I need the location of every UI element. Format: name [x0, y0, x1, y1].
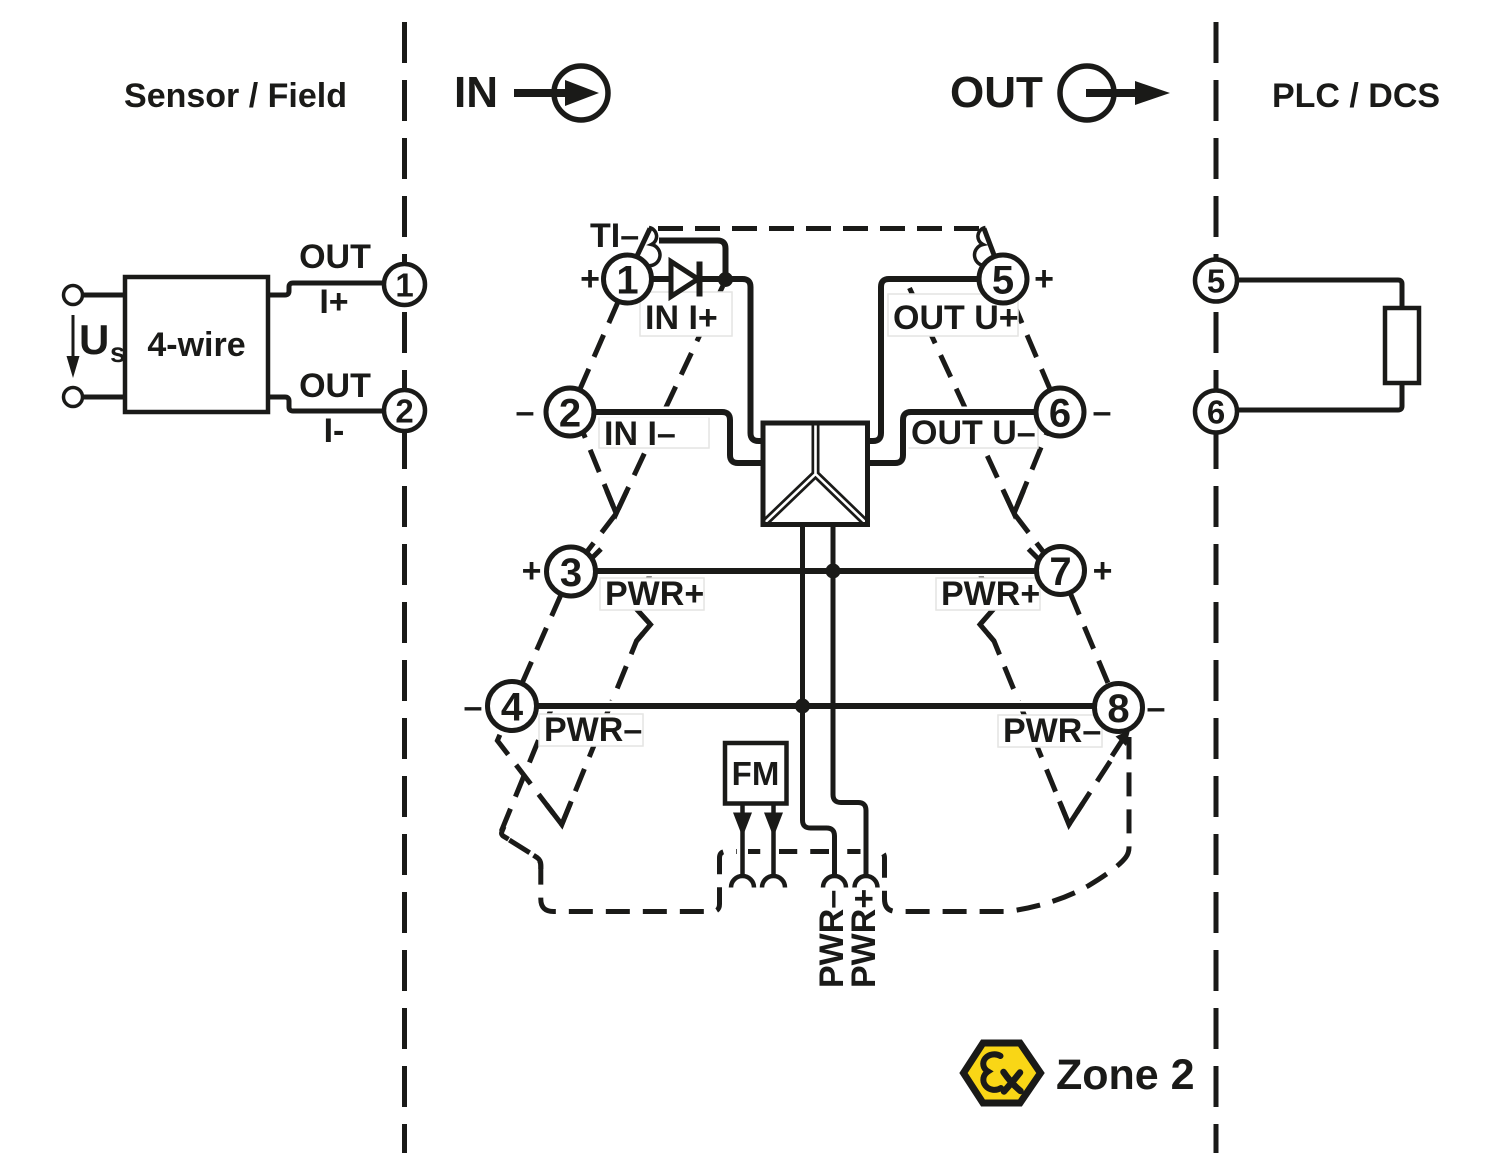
- svg-text:FM: FM: [732, 755, 780, 792]
- svg-text:OUT: OUT: [299, 367, 371, 405]
- svg-text:PWR+: PWR+: [941, 575, 1040, 613]
- svg-text:6: 6: [1207, 394, 1225, 431]
- wire: sensor terminal 1 to converter (IN I+) with diode run: [652, 279, 764, 441]
- svg-text:+: +: [1093, 552, 1113, 590]
- terminal circle 8: [1095, 684, 1143, 732]
- svg-text:6: 6: [1049, 392, 1071, 436]
- svg-text:TI–: TI–: [590, 217, 639, 255]
- dashed outline: right PWR+ diagonal with notch down to V2' and up to terminal 8: [979, 571, 1113, 825]
- solid vertex V2': [1060, 801, 1083, 824]
- Ex hexagon symbol: [964, 1043, 1041, 1103]
- svg-text:–: –: [464, 688, 483, 726]
- svg-text:I-: I-: [324, 412, 345, 450]
- dashed outline: V1 notch to terminal 3: [586, 514, 616, 554]
- label box IN I+: [640, 292, 732, 337]
- junction node IN I+: [718, 272, 733, 287]
- dashed outline: module bottom boundary (left jog, connector bay, right curve): [501, 706, 1129, 912]
- svg-text:Zone 2: Zone 2: [1056, 1051, 1195, 1099]
- wire 4-wire box to terminal 1: [268, 283, 384, 295]
- FM arrow left: [733, 813, 752, 838]
- junction node PWR-: [795, 699, 810, 714]
- solid elbow at bottom left jog: [534, 855, 541, 869]
- svg-text:–: –: [1147, 689, 1166, 727]
- boundary terminal 2: [384, 390, 425, 431]
- svg-text:IN I+: IN I+: [645, 299, 718, 337]
- dashed connector outline: top TI test loop line: [658, 226, 984, 231]
- label Us: [79, 316, 126, 368]
- label box OUT U-: [906, 414, 1038, 452]
- clamp tick at terminal 3: [588, 549, 601, 562]
- disconnect curl at terminal 5: [975, 228, 995, 266]
- terminal circle 4: [488, 682, 537, 731]
- wire: PWR- rail terminal 4 to terminal 8: [536, 703, 1095, 709]
- dashed outline: terminal 5 to terminal 6 diagonal: [1013, 301, 1051, 390]
- terminal circle 1: [604, 255, 652, 303]
- svg-text:+: +: [580, 260, 600, 298]
- label box OUT U+: [888, 294, 1019, 337]
- svg-text:U: U: [79, 316, 109, 363]
- dashed outline: diagonal from OUT U node down to notch V1' and up to terminal 6: [910, 288, 1048, 514]
- IN icon: [514, 66, 608, 120]
- svg-text:PWR+: PWR+: [605, 575, 704, 613]
- boundary terminal 1: [384, 264, 425, 305]
- wire: terminal 2 to converter (IN I-): [594, 412, 764, 463]
- wire: converter bottom right leg to PWR+ junction and power pin: [833, 525, 866, 877]
- FM box: [725, 743, 787, 804]
- label box PWR+ left: [600, 575, 704, 613]
- FM wire left: [740, 804, 745, 875]
- wire 4-wire box to terminal 2: [268, 397, 384, 411]
- svg-text:1: 1: [616, 259, 638, 303]
- svg-text:OUT: OUT: [950, 68, 1043, 117]
- wire load resistor to terminal 6: [1237, 383, 1402, 410]
- solid notch on left PWR+ diagonal: [636, 609, 651, 642]
- power pin socket arcs: [731, 876, 754, 887]
- divider dashed line right (OUT | PLC/DCS): [1214, 22, 1219, 1153]
- dashed outline: PWR+ diagonal with notch down to V2 and elbow to terminal 4: [497, 571, 651, 825]
- wire: converter to terminal 6 (OUT U-): [868, 412, 1037, 463]
- dashed outline: terminal 1 to terminal 2 diagonal: [580, 301, 619, 390]
- wire terminal 5 to load resistor: [1237, 280, 1402, 308]
- svg-text:PLC / DCS: PLC / DCS: [1272, 77, 1440, 115]
- wire: PWR+ rail terminal 3 to terminal 7: [595, 568, 1037, 574]
- load resistor: [1385, 308, 1419, 383]
- wire: converter to terminal 5 (OUT U+): [868, 279, 980, 441]
- svg-text:OUT: OUT: [299, 238, 371, 276]
- TI- disconnect curl at terminal 1: [637, 228, 660, 266]
- label box PWR+ right: [936, 575, 1040, 613]
- svg-text:1: 1: [395, 267, 413, 304]
- svg-text:PWR–: PWR–: [544, 711, 642, 749]
- svg-text:5: 5: [992, 259, 1014, 303]
- svg-text:+: +: [1034, 260, 1054, 298]
- terminal circle 3: [547, 547, 596, 596]
- dashed outline: terminal 7 to terminal 8 diagonal: [1070, 593, 1109, 686]
- solid vertex V1': [1004, 490, 1024, 513]
- OUT icon: [1060, 66, 1170, 120]
- svg-text:–: –: [1093, 393, 1112, 431]
- solid vertex V2: [547, 801, 572, 824]
- wire: converter bottom left leg to PWR- junction and power pin: [803, 525, 835, 877]
- dashed outline: diagonal from IN I+ node down to notch V1 and up to terminal 2: [583, 286, 723, 514]
- svg-text:8: 8: [1107, 687, 1129, 731]
- diode D1: [671, 262, 700, 297]
- svg-text:PWR–: PWR–: [1003, 712, 1101, 750]
- svg-text:OUT U–: OUT U–: [911, 414, 1036, 452]
- svg-text:PWR+: PWR+: [845, 889, 883, 988]
- terminal circle 6: [1036, 388, 1084, 436]
- label box IN I-: [599, 415, 709, 453]
- dashed outline: V1' notch to terminal 7: [1014, 514, 1044, 554]
- wire source bottom to 4-wire box: [83, 395, 126, 400]
- svg-text:I+: I+: [319, 283, 348, 321]
- svg-text:3: 3: [560, 551, 582, 595]
- wire: TI measuring loop from junction up and left: [659, 241, 726, 283]
- svg-text:4-wire: 4-wire: [147, 326, 245, 364]
- svg-text:2: 2: [395, 393, 413, 430]
- boundary terminal 5: [1195, 260, 1237, 302]
- divider dashed line left (Sensor/Field | IN): [402, 22, 407, 1153]
- isolation converter U1: [763, 423, 868, 525]
- svg-text:IN I–: IN I–: [604, 415, 676, 453]
- label box PWR- left: [539, 711, 643, 749]
- svg-text:IN: IN: [454, 68, 498, 117]
- svg-text:7: 7: [1049, 550, 1071, 594]
- sensor source terminal bottom: [64, 388, 83, 407]
- clamp tick at terminal 7: [1029, 549, 1042, 562]
- solid vertex V1: [607, 490, 627, 513]
- junction node PWR+: [826, 564, 841, 579]
- svg-text:–: –: [516, 393, 535, 431]
- FM wire right: [771, 804, 776, 875]
- plug arrow at terminal 8: [1112, 730, 1130, 756]
- wire white casings: [536, 412, 1095, 876]
- svg-text:+: +: [522, 552, 542, 590]
- dashed outline: terminal 3 to terminal 4 diagonal: [522, 594, 562, 684]
- terminal circle 5: [979, 255, 1027, 303]
- Us source arrow: [67, 315, 80, 378]
- 4-wire transmitter box: [125, 277, 268, 412]
- svg-text:5: 5: [1207, 263, 1225, 300]
- boundary terminal 6: [1195, 391, 1237, 433]
- solid elbow below terminal 4: [502, 827, 509, 840]
- svg-text:Sensor / Field: Sensor / Field: [124, 77, 347, 115]
- terminal circle 7: [1037, 547, 1085, 595]
- label box PWR- right: [998, 712, 1102, 750]
- svg-text:2: 2: [559, 392, 581, 436]
- svg-text:4: 4: [501, 686, 524, 730]
- wire source top to 4-wire box: [83, 293, 126, 298]
- sensor source terminal top: [64, 286, 83, 305]
- terminal circle 2: [546, 388, 594, 436]
- FM arrow right: [764, 813, 783, 838]
- solid notch on right PWR+ diagonal: [980, 609, 994, 642]
